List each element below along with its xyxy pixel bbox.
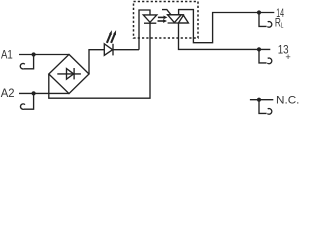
- terminal clamp A1 (open arc): [20, 63, 25, 68]
- triac Q1: [162, 10, 188, 23]
- node A2 junction dot: [31, 91, 35, 95]
- triac top bar MT2: [167, 14, 184, 16]
- terminal clamp A2 (open arc): [20, 104, 25, 109]
- svg-text:A2: A2: [1, 86, 15, 100]
- optocoupler emitter LED: [143, 15, 157, 23]
- wire MT1 to terminal 13: [179, 23, 271, 49]
- wire 14 clamp stub: [259, 13, 267, 27]
- terminal clamp 13 (open arc): [267, 58, 272, 64]
- node N.C. junction dot: [257, 98, 261, 102]
- svg-text:A1: A1: [1, 48, 13, 62]
- wire 13 clamp stub: [259, 49, 267, 63]
- wire A1 line: [19, 54, 69, 56]
- optocoupler U1 dashed box: [134, 2, 199, 39]
- wire emitter return down and back to bridge: [49, 23, 150, 98]
- terminal clamp 14 (open arc): [267, 22, 272, 28]
- node A1 junction dot: [31, 52, 35, 56]
- wire LED line up into optocoupler: [139, 10, 150, 50]
- node terminal 13 junction dot: [257, 47, 261, 51]
- LED light arrows: [107, 30, 116, 43]
- svg-text:N.C.: N.C.: [276, 95, 299, 107]
- wire A2 clamp stub: [24, 93, 34, 109]
- optocoupler light arrows: [158, 16, 168, 23]
- wire N.C. clamp stub: [259, 100, 267, 114]
- wire MT2 to terminal 14: [179, 10, 275, 43]
- LED D1 indicator: [104, 44, 139, 56]
- triac left triangle: [168, 15, 182, 23]
- triac bottom bar MT1: [168, 22, 189, 24]
- wire N.C. stub line: [250, 99, 273, 101]
- svg-text:L: L: [281, 23, 284, 30]
- wire A1 clamp stub: [24, 55, 34, 69]
- triac right triangle: [178, 15, 188, 23]
- wire bridge output to LED: [89, 50, 104, 74]
- svg-text:+: +: [285, 52, 291, 63]
- triac gate bent lead: [162, 10, 171, 15]
- terminal clamp N.C. (open arc): [267, 109, 272, 115]
- node terminal 14 junction dot: [257, 10, 261, 14]
- diode inside bridge: [57, 68, 81, 79]
- wire A2 line: [19, 92, 69, 94]
- bridge rectifier B1 diamond: [49, 54, 89, 93]
